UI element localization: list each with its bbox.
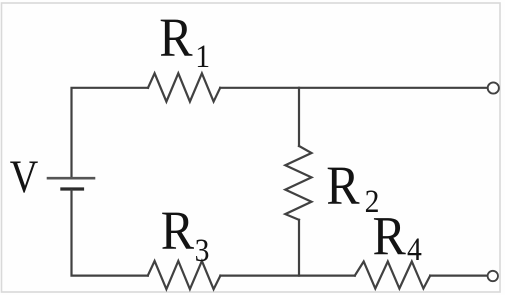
- wire R2 upper vertical: [298, 88, 300, 146]
- battery V long plate: [48, 177, 94, 180]
- wire bottom-middle: [220, 275, 354, 277]
- svg-text:R: R: [326, 156, 360, 217]
- svg-text:4: 4: [407, 231, 422, 268]
- resistor R4: [355, 262, 430, 289]
- svg-text:1: 1: [195, 38, 210, 75]
- wire bottom-right: [430, 275, 487, 277]
- wire R2 lower vertical: [298, 220, 300, 276]
- svg-text:V: V: [10, 151, 39, 203]
- wire left-bottom vertical: [72, 191, 148, 276]
- battery V short plate: [62, 187, 83, 190]
- svg-text:3: 3: [195, 232, 210, 269]
- terminal A circle: [488, 82, 499, 93]
- svg-text:R: R: [373, 206, 407, 267]
- svg-text:R: R: [159, 8, 193, 69]
- terminal B circle: [488, 271, 498, 281]
- svg-text:R: R: [161, 201, 195, 262]
- resistor R3: [148, 261, 221, 289]
- resistor R1: [148, 73, 220, 101]
- resistor R2: [285, 146, 311, 220]
- wire top-right: [220, 87, 487, 89]
- wire top-left horizontal: [72, 88, 149, 177]
